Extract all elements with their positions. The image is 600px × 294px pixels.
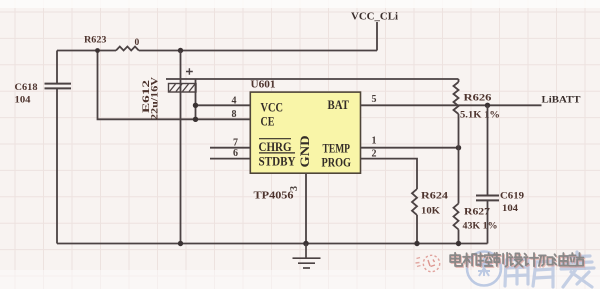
wire: bottom ground rail [57, 243, 488, 245]
wire: PROG to R624 [361, 159, 418, 189]
wire: TEMP [361, 147, 459, 149]
capacitor C618 [56, 51, 58, 244]
wire: CE branch from rail [98, 51, 251, 120]
pin names VCC CE CHRG STDBY TEMP PROG BAT [259, 98, 352, 170]
svg-text:5: 5 [372, 94, 377, 105]
svg-text:STDBY: STDBY [259, 155, 296, 169]
pin numbers 4 8 7 6 5 1 2 [232, 94, 377, 159]
IC U601 TP4056 body [250, 92, 360, 173]
svg-text:5.1K 1%: 5.1K 1% [460, 111, 500, 121]
svg-text:TP4056: TP4056 [254, 191, 294, 202]
pin 3 number rotated [289, 186, 300, 191]
svg-text:U601: U601 [251, 80, 276, 91]
svg-text:C618: C618 [15, 83, 38, 93]
wire: pin3 GND drop [305, 173, 307, 243]
svg-text:2: 2 [372, 148, 377, 159]
wire: pin6 stub [210, 158, 250, 160]
svg-text:1: 1 [372, 136, 377, 147]
ground symbol [293, 244, 321, 269]
watermark: blue characters [505, 252, 594, 287]
svg-text:22u/16V: 22u/16V [150, 76, 160, 120]
svg-text:LiBATT: LiBATT [542, 96, 582, 106]
svg-text:104: 104 [502, 204, 518, 214]
resistor R627 [458, 148, 460, 204]
overline STDBY [259, 152, 295, 154]
node junction on rail [178, 48, 183, 53]
svg-text:R624: R624 [421, 192, 448, 202]
watermark: gray text with red fringe [450, 253, 584, 268]
watermark: blue stamp circle [467, 252, 501, 286]
svg-text:PROG: PROG [322, 156, 352, 170]
svg-text:43K 1%: 43K 1% [463, 222, 498, 232]
svg-text:10K: 10K [421, 207, 441, 217]
svg-text:CE: CE [261, 115, 275, 129]
wire: pin4 [196, 104, 251, 106]
capacitor E612 (electrolytic) [180, 51, 182, 244]
svg-text:CHRG: CHRG [259, 140, 292, 154]
svg-text:TEMP: TEMP [323, 142, 351, 156]
svg-text:BAT: BAT [328, 98, 350, 112]
resistor R624 [412, 189, 417, 215]
GND label rotated [298, 136, 312, 168]
wire: VCC_CLi drop [376, 22, 378, 51]
resistor R623 [116, 47, 139, 51]
svg-text:R623: R623 [84, 36, 107, 46]
svg-text:VCC: VCC [261, 101, 284, 115]
svg-text:104: 104 [15, 96, 31, 106]
svg-text:R626: R626 [464, 94, 492, 104]
svg-text:0: 0 [135, 38, 140, 48]
overline CHRG [259, 138, 291, 140]
svg-text:3: 3 [289, 186, 300, 191]
wire: pin7 stub [210, 147, 250, 149]
svg-text:6: 6 [233, 148, 238, 159]
svg-text:C619: C619 [500, 192, 524, 202]
wire: BAT to LiBATT [361, 104, 542, 106]
svg-text:VCC_CLi: VCC_CLi [351, 12, 398, 23]
svg-text:4: 4 [232, 96, 237, 107]
node junction CE tap [95, 48, 100, 53]
watermark: red dotted logo circle [416, 255, 440, 271]
svg-text:8: 8 [232, 109, 237, 120]
resistor R626 [458, 79, 460, 82]
capacitor C619 [487, 105, 489, 243]
svg-text:R627: R627 [464, 208, 490, 218]
wire: top VCC rail [57, 50, 377, 52]
svg-text:GND: GND [298, 136, 312, 168]
